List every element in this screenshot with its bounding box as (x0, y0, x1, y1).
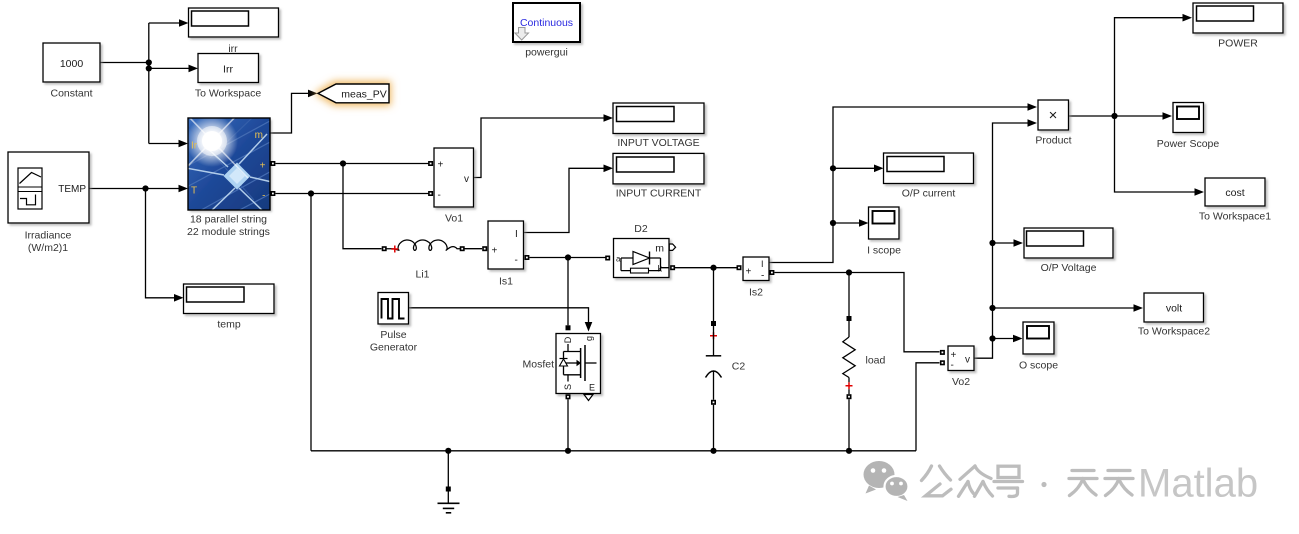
svg-text:O/P current: O/P current (902, 188, 956, 200)
constant block 1000 (43, 43, 100, 100)
port square Vo1 + input (428, 161, 433, 166)
svg-text:Generator: Generator (370, 342, 418, 354)
arrowhead into Mosfet gate (down) (585, 322, 593, 332)
wire rail up to Vo2 - input (916, 363, 940, 451)
arrowhead into I scope (859, 219, 869, 227)
svg-text:m: m (655, 243, 664, 255)
port square D2 anode input (605, 256, 610, 261)
watermark text 公 (922, 466, 952, 496)
signal source Irradiance (W/m2)1 (8, 152, 89, 254)
svg-text:O scope: O scope (1019, 360, 1058, 372)
display POWER (1193, 3, 1283, 50)
port square Mosfet source bottom (566, 394, 571, 399)
svg-text:volt: volt (1166, 303, 1182, 315)
svg-text:meas_PV: meas_PV (341, 89, 387, 101)
current measurement Is1 (488, 221, 524, 288)
wire D2 cathode to Is2 + (675, 267, 737, 269)
arrowhead into Product in2 (1028, 119, 1038, 127)
wire to Irr To Workspace (149, 67, 190, 69)
wire product to Power Scope (1115, 115, 1164, 117)
wire branch to O/P current display (833, 167, 875, 169)
wire PV + branch down to Li1 (343, 164, 382, 249)
node Is2 minus / load branch (846, 269, 852, 275)
svg-text:18 parallel string: 18 parallel string (190, 214, 267, 226)
svg-text:×: × (1049, 107, 1058, 124)
svg-text:22 module strings: 22 module strings (187, 226, 270, 238)
node rail C2 (710, 448, 716, 454)
node constant branch 2 (146, 65, 152, 71)
display irr (189, 8, 279, 55)
arrowhead into Product in1 (1028, 103, 1038, 111)
wire Product output (1069, 115, 1115, 117)
arrowhead into O scope (1013, 335, 1023, 343)
port pentagon D2 m output (669, 244, 675, 250)
port square Li1 left (382, 246, 387, 251)
svg-text:+: + (260, 161, 266, 172)
svg-text:1000: 1000 (60, 58, 84, 70)
display temp (184, 284, 275, 331)
port square Vo2 + input (940, 350, 945, 355)
port square load top (847, 316, 852, 321)
node rail ground (445, 448, 451, 454)
node product output (1111, 113, 1117, 119)
svg-text:(W/m2)1: (W/m2)1 (28, 242, 68, 254)
voltage measurement Vo1 (434, 148, 474, 225)
wire bottom rail (311, 450, 916, 452)
svg-text:Vo1: Vo1 (445, 213, 463, 225)
svg-text:To Workspace1: To Workspace1 (1199, 211, 1271, 223)
svg-text:powergui: powergui (525, 47, 568, 59)
svg-text:Pulse: Pulse (380, 329, 406, 341)
svg-text:Constant: Constant (50, 88, 92, 100)
transistor Mosfet (522, 325, 600, 400)
wire branch to I scope (833, 222, 860, 224)
svg-text:D: D (563, 336, 573, 343)
wire to irr display (149, 22, 180, 24)
svg-text:D2: D2 (634, 223, 648, 235)
port square Mosfet drain top (566, 325, 571, 330)
watermark text dot (1041, 482, 1046, 487)
svg-text:I: I (761, 259, 764, 269)
watermark text 天 (2) (1105, 471, 1133, 496)
wire Mosfet source to rail (567, 399, 569, 451)
display O/P Voltage (1024, 228, 1113, 274)
capacitor C2 (706, 321, 746, 451)
node Is2 I to OP current (830, 165, 836, 171)
port square Is1 - output (524, 255, 529, 260)
port square load bottom (847, 394, 852, 399)
node PV plus branch (340, 160, 346, 166)
wire PV m output to meas_PV (270, 93, 309, 133)
svg-text:Mosfet: Mosfet (522, 359, 554, 371)
scope Power Scope (1157, 103, 1220, 151)
svg-text:Is1: Is1 (499, 276, 513, 288)
polarity plus C2 (710, 332, 717, 339)
arrowhead into POWER display (1183, 14, 1193, 22)
port square Vo2 - input (940, 360, 945, 365)
arrowhead into Irr workspace (189, 65, 199, 73)
port square PV - output (270, 191, 275, 196)
polarity plus Li1 (391, 246, 398, 253)
svg-text:-: - (951, 360, 954, 371)
arrowhead into meas_PV (308, 90, 318, 98)
PV array block 18 parallel string 22 module strings (170, 110, 312, 238)
port triangle Mosfet E output (584, 395, 593, 401)
svg-text:O/P Voltage: O/P Voltage (1041, 262, 1097, 274)
arrowhead into O/P Voltage (1014, 239, 1024, 247)
node D2 out / C2 branch (710, 265, 716, 271)
svg-text:+: + (746, 267, 752, 278)
wire Is1 - output to D2 anode (530, 257, 606, 259)
svg-text:v: v (464, 174, 469, 185)
arrowhead into Power Scope (1163, 112, 1173, 120)
svg-text:Power Scope: Power Scope (1157, 138, 1220, 150)
pulse generator block (370, 293, 418, 354)
port square Is2 - output (769, 270, 774, 275)
svg-text:Ir: Ir (191, 141, 198, 152)
watermark wechat icon (864, 461, 909, 501)
svg-text:v: v (965, 355, 970, 366)
arrowhead into INPUT CURRENT (604, 165, 614, 173)
node TEMP branch (142, 185, 148, 191)
port square Is2 + input (737, 265, 742, 270)
scope O scope (1019, 322, 1058, 372)
svg-text:-: - (515, 255, 518, 266)
wire Pulse Generator to Mosfet gate (409, 308, 589, 322)
svg-text:To Workspace2: To Workspace2 (1138, 326, 1210, 338)
svg-text:INPUT CURRENT: INPUT CURRENT (616, 188, 702, 200)
svg-text:Irr: Irr (223, 64, 233, 76)
wire Vo1 v output to INPUT VOLTAGE (474, 118, 605, 178)
svg-text:TEMP: TEMP (58, 184, 86, 195)
svg-text:-: - (262, 191, 265, 202)
svg-text:-: - (438, 190, 441, 201)
wire TEMP branch to temp display (146, 189, 176, 298)
to-workspace volt (1138, 293, 1210, 338)
watermark text 号 (994, 466, 1023, 496)
wire Constant output to branch node (100, 62, 149, 64)
arrowhead into PV T (179, 185, 189, 193)
display INPUT CURRENT (613, 153, 704, 199)
svg-text:g: g (584, 336, 594, 341)
current measurement Is2 (743, 257, 769, 299)
arrowhead into PV Ir (179, 140, 189, 148)
wire TEMP to PV array T input (89, 188, 180, 190)
svg-text:Irradiance: Irradiance (25, 230, 72, 242)
svg-text:INPUT VOLTAGE: INPUT VOLTAGE (617, 137, 699, 149)
wire Is2 I output up to Product input 1 (770, 107, 1028, 263)
polarity plus load (846, 382, 853, 389)
node PV minus branch (308, 190, 314, 196)
node rail mosfet (565, 448, 571, 454)
port square C2 bottom (711, 400, 716, 405)
wire junction down to Mosfet drain (567, 258, 569, 326)
svg-text:C2: C2 (732, 361, 746, 373)
node constant branch 1 (146, 59, 152, 65)
node Is1 minus / mosfet drain (565, 254, 571, 260)
svg-text:Vo2: Vo2 (952, 376, 970, 388)
node Vo2 to volt (989, 305, 995, 311)
wire branch to O/P Voltage display (993, 242, 1015, 244)
wire PV + output to Vo1 + (276, 163, 429, 165)
voltage measurement Vo2 (948, 346, 974, 388)
ARROWHEADS (174, 14, 1204, 342)
wire Vo2 v output up to Product input 2 (974, 123, 1028, 358)
svg-text:Matlab: Matlab (1138, 462, 1258, 506)
port square Is1 + input (482, 246, 487, 251)
wire product to POWER display (1115, 18, 1183, 116)
svg-text:temp: temp (217, 319, 241, 331)
wire junction down to C2 (713, 268, 715, 321)
port square Vo1 - input (428, 191, 433, 196)
node Vo2 to O scope (989, 335, 995, 341)
port square Li1 right (460, 246, 465, 251)
wire branch to O scope (993, 338, 1015, 340)
svg-text:-: - (761, 271, 764, 282)
inductor Li1 (382, 240, 465, 281)
node Is2 I to I scope (830, 220, 836, 226)
wire Li1 to Is1 + (465, 248, 483, 250)
display INPUT VOLTAGE (613, 103, 704, 149)
svg-text:m: m (255, 130, 263, 141)
wire junction down to load (848, 273, 850, 317)
diode D2 (605, 223, 675, 278)
wire PV - output to Vo1 - (276, 193, 429, 195)
svg-text:Product: Product (1035, 135, 1071, 147)
svg-text:T: T (191, 186, 197, 197)
product block (1035, 100, 1071, 147)
svg-text:I: I (515, 229, 518, 240)
ground (438, 451, 460, 513)
port square C2 top (711, 321, 716, 326)
wire branch vertical (Constant to irr / Irr / PV Ir) (148, 23, 150, 144)
wire product to cost workspace (1115, 116, 1195, 192)
svg-text:cost: cost (1225, 187, 1244, 199)
to-workspace Irr (195, 54, 261, 100)
wire PV - down to bottom rail (310, 194, 312, 451)
resistor load (843, 316, 886, 451)
scope I scope (867, 207, 901, 257)
svg-text:Li1: Li1 (415, 269, 429, 281)
svg-text:load: load (866, 355, 886, 367)
svg-text:POWER: POWER (1218, 38, 1258, 50)
arrowhead into O/P current (874, 165, 884, 173)
arrowhead into irr display (179, 19, 189, 27)
arrowhead into temp display (174, 294, 184, 302)
svg-text:+: + (492, 246, 498, 257)
svg-text:Is2: Is2 (749, 287, 763, 299)
svg-text:+: + (438, 160, 444, 171)
arrowhead into cost workspace (1195, 188, 1205, 196)
wire Is2 - output to Vo2 + (775, 273, 940, 352)
svg-text:S: S (563, 384, 573, 390)
watermark text 众 (959, 466, 993, 496)
wire Is1 I output to INPUT CURRENT (524, 168, 605, 232)
svg-text:To Workspace: To Workspace (195, 88, 261, 100)
goto tag meas_PV (314, 81, 391, 106)
port square PV + output (270, 161, 275, 166)
svg-text:a: a (616, 255, 621, 264)
watermark text 天 (1) (1069, 471, 1097, 496)
to-workspace cost (1199, 178, 1271, 223)
wire to PV array Ir input (149, 143, 180, 145)
wire branch to volt workspace (993, 307, 1135, 309)
port square D2 cathode output (670, 265, 675, 270)
node rail load (846, 448, 852, 454)
node Vo2 to OP voltage (989, 240, 995, 246)
powergui block (513, 3, 580, 59)
svg-text:Continuous: Continuous (520, 17, 573, 29)
arrowhead into INPUT VOLTAGE (604, 114, 614, 122)
svg-text:I scope: I scope (867, 245, 901, 257)
display O/P current (884, 153, 974, 200)
arrowhead into volt workspace (1134, 304, 1144, 312)
svg-text:E: E (589, 383, 595, 393)
